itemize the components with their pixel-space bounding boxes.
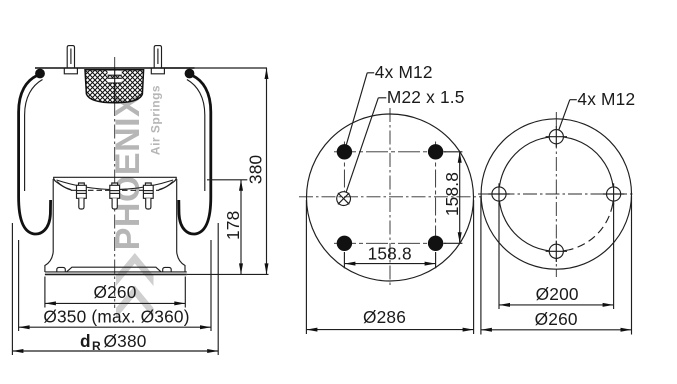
- svg-text:Ø200: Ø200: [536, 284, 579, 304]
- piston base flange: [45, 267, 187, 274]
- dimension 380 vertical: [245, 68, 268, 274]
- top plate: [35, 67, 195, 69]
- svg-text:Ø260: Ø260: [93, 282, 136, 302]
- M22 x 1.5 port symbol: [337, 192, 351, 206]
- gasket dashed line: [71, 189, 159, 191]
- svg-text:R: R: [92, 339, 101, 353]
- center line vertical (middle): [389, 108, 391, 288]
- bolt circle Ø200: [499, 137, 614, 252]
- bolt M12 bottom-left: [337, 236, 352, 251]
- bellows inner line left: [25, 80, 43, 192]
- bellows inner line right: [187, 80, 205, 192]
- cup right corner curl: [159, 178, 176, 190]
- dimension 178 vertical: [223, 180, 243, 275]
- dimension 158.8 horizontal: [344, 244, 435, 269]
- dimension Ø286: [306, 200, 473, 334]
- cup left corner curl: [54, 178, 71, 190]
- piston top reference line: [207, 179, 247, 181]
- bead right: [185, 69, 195, 79]
- svg-text:Ø260: Ø260: [535, 309, 578, 329]
- bellows outline left: [19, 76, 51, 234]
- bolt M12 top-right: [428, 144, 443, 159]
- svg-text:d: d: [80, 331, 91, 351]
- piston circle Ø260: [481, 119, 631, 269]
- plate circle Ø286: [307, 114, 474, 281]
- dimension Ø200: [499, 203, 614, 309]
- svg-text:Ø350 (max. Ø360): Ø350 (max. Ø360): [43, 307, 189, 327]
- piston wall left: [52, 179, 54, 252]
- hole M12 bottom: [546, 241, 567, 262]
- bead left: [35, 69, 45, 79]
- piston skirt right: [177, 252, 185, 272]
- svg-text:M22 x 1.5: M22 x 1.5: [387, 87, 465, 107]
- hole M12 top: [546, 126, 567, 147]
- leader 4x M12 (middle): [346, 62, 432, 145]
- stud right: [151, 46, 164, 74]
- dimension Ø350 (max. Ø360): [19, 240, 211, 331]
- bolt M12 top-left: [337, 144, 352, 159]
- top plate extension line to 380 dim: [160, 67, 267, 69]
- bellows outline right: [179, 76, 211, 234]
- hole M12 left: [488, 183, 509, 204]
- stud left: [64, 46, 77, 74]
- svg-text:Air Springs: Air Springs: [149, 85, 163, 155]
- svg-text:158.8: 158.8: [368, 244, 412, 264]
- hole M12 right: [603, 183, 624, 204]
- dimension Ø260: [45, 277, 185, 308]
- center line vertical (right): [555, 112, 557, 277]
- dimension Ø260 (right view): [481, 196, 632, 335]
- base rivet left: [57, 267, 66, 271]
- piston bolt 1: [77, 183, 87, 209]
- piston skirt left: [45, 252, 53, 272]
- leader M22 x 1.5: [346, 87, 465, 193]
- piston bolt 3: [143, 183, 153, 209]
- base rivet right: [163, 267, 172, 271]
- svg-text:178: 178: [223, 211, 243, 240]
- dimension 158.8 vertical: [442, 152, 463, 244]
- bottom reference line: [187, 273, 269, 275]
- center line horizontal (right): [478, 193, 635, 195]
- watermark PHOENIX logo chevrons: [116, 253, 154, 319]
- center line horizontal (middle): [299, 196, 481, 198]
- bolt M12 bottom-right: [428, 236, 443, 251]
- svg-text:380: 380: [245, 155, 265, 184]
- svg-text:158.8: 158.8: [442, 172, 462, 216]
- piston cup: [53, 177, 177, 252]
- piston wall right: [176, 179, 178, 252]
- leader 4x M12 (right): [559, 89, 636, 130]
- center line (left view): [114, 57, 116, 308]
- bolt row center lines: [334, 151, 446, 153]
- piston bolt 2: [110, 183, 120, 209]
- svg-text:Ø380: Ø380: [104, 331, 147, 351]
- rubber bumper (crosshatched): [85, 70, 144, 103]
- dimension dR Ø380: [12, 223, 218, 355]
- svg-text:4x M12: 4x M12: [375, 62, 433, 82]
- svg-text:Ø286: Ø286: [363, 307, 406, 327]
- svg-text:4x M12: 4x M12: [577, 89, 635, 109]
